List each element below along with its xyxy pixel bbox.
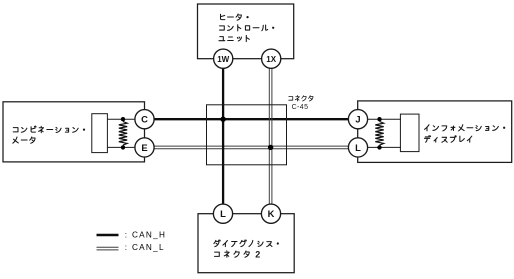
node resistor top left — [121, 117, 125, 121]
resistor in combination meter — [119, 122, 127, 146]
wire L to block — [367, 146, 401, 148]
terminal 1W — [214, 49, 233, 68]
legend CAN_H sample line — [97, 234, 119, 237]
svg-text:1W: 1W — [217, 55, 229, 64]
connector C-45 outline — [207, 105, 287, 165]
node resistor bottom right — [377, 145, 381, 149]
svg-text:1X: 1X — [266, 55, 276, 64]
label connector C-45 — [289, 96, 313, 112]
node CAN_L junction — [268, 145, 273, 150]
label information display — [424, 125, 505, 143]
wire block to C — [107, 118, 136, 120]
wire CAN_L vertical double line (1X to K) — [269, 59, 272, 214]
box information display — [358, 101, 512, 162]
label heater control unit — [219, 14, 274, 42]
wire CAN_H horizontal (C to J) — [145, 118, 359, 120]
wire CAN_H vertical (1W to L) — [222, 59, 224, 214]
terminal L bottom — [213, 204, 232, 223]
legend CAN_L sample double line — [97, 247, 119, 250]
label diagnosis connector 2 — [214, 240, 279, 259]
terminal E — [135, 138, 154, 157]
svg-text:K: K — [268, 208, 275, 219]
box heater control unit — [198, 4, 294, 59]
component block in combination meter — [92, 114, 108, 153]
resistor in information display — [375, 122, 383, 146]
svg-text:: CAN_L: : CAN_L — [125, 243, 165, 252]
wire CAN_L horizontal double line (E to L) — [145, 146, 359, 149]
label combination meter — [13, 126, 85, 143]
svg-text:: CAN_H: : CAN_H — [125, 230, 166, 239]
wire block to E — [107, 146, 136, 148]
component block in information display — [400, 114, 419, 152]
terminal J — [348, 110, 367, 129]
terminal K — [261, 204, 280, 223]
node resistor bottom left — [121, 145, 125, 149]
box combination meter — [3, 102, 145, 162]
terminal L right — [348, 138, 367, 157]
terminal C — [135, 110, 154, 129]
box diagnosis connector 2 — [198, 214, 294, 273]
svg-text:C-45: C-45 — [292, 104, 309, 111]
svg-text:E: E — [141, 142, 147, 153]
svg-text:J: J — [355, 114, 360, 125]
svg-text:2: 2 — [255, 249, 260, 259]
svg-text:C: C — [141, 114, 148, 125]
node resistor top right — [377, 117, 381, 121]
svg-text:L: L — [220, 208, 226, 219]
node CAN_H junction — [220, 117, 225, 122]
terminal 1X — [262, 49, 281, 68]
svg-text:L: L — [355, 142, 361, 153]
wire J to block — [367, 118, 401, 120]
